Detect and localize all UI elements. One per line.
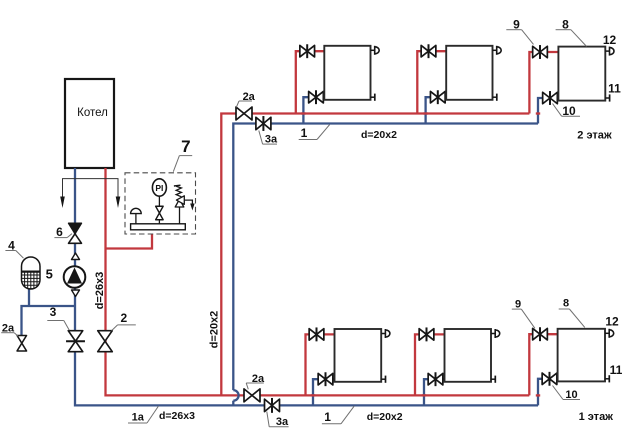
value label d=20x2 (floor 1 main) — [367, 411, 403, 423]
svg-text:8: 8 — [563, 298, 569, 310]
label 2a (floor 2) with leader — [236, 91, 255, 107]
valve 2a (floor 2) — [236, 107, 252, 120]
radiator valve 9 (floor 2, radiator 2) — [421, 44, 436, 58]
label 12 (floor 1) — [605, 314, 619, 328]
wire: blue riser hop over red main — [233, 390, 238, 406]
label 2a (left) with leader — [1, 322, 18, 336]
pump 5 — [64, 266, 86, 288]
value label d=20x2 (riser, rotated) — [209, 311, 221, 349]
caption 1 этаж — [579, 411, 614, 423]
air vent 12 (floor 1, radiator 1) — [381, 329, 390, 338]
svg-text:Котел: Котел — [77, 107, 108, 119]
label 5 — [46, 267, 53, 282]
plug 11 (floor 1, radiator 1) — [381, 376, 385, 383]
plug 11 (floor 2, radiator 2) — [493, 94, 497, 101]
label 7 with leader — [173, 137, 192, 172]
svg-text:11: 11 — [608, 81, 621, 95]
air vent 12 (floor 2, radiator 1) — [371, 46, 380, 55]
radiator valve 10 (floor 2, radiator 2) — [430, 90, 445, 104]
plug 11 (floor 1, radiator 2) — [491, 376, 495, 383]
valve 2a (floor 1) — [244, 389, 260, 402]
wire: blue branch (floor 2, radiator 3) — [536, 98, 559, 124]
wire: red branch (floor 2, radiator 3) — [529, 52, 558, 114]
label 2a (floor 1) with leader — [246, 373, 265, 389]
valve 3a (floor 2) — [256, 116, 271, 131]
label 1 (floor 2) with leader — [299, 125, 330, 141]
air vent (dome) — [131, 208, 142, 224]
gauge valve — [156, 206, 164, 224]
wire: red supply pipe from boiler down and right along floor 1 (main d=26x3) — [106, 168, 530, 395]
union above pump — [72, 253, 80, 260]
label 1 (floor 1) with leader — [322, 406, 354, 424]
svg-text:d=26x3: d=26x3 — [159, 410, 195, 422]
wire: blue branch (floor 1, radiator 1) — [311, 379, 335, 405]
svg-text:d=20x2: d=20x2 — [209, 311, 221, 349]
air vent 12 (floor 2, radiator 3) — [605, 47, 614, 56]
wire: blue return pipe from boiler down through pump/valves and right along floor 1 — [75, 168, 538, 405]
wire: red branch (floor 2, radiator 2) — [417, 51, 446, 113]
radiator valve 9 (floor 1, radiator 3) — [533, 327, 548, 341]
plug 11 (floor 2, radiator 3) — [605, 94, 609, 101]
label 11 (floor 1) — [610, 363, 623, 377]
drain valve 2a (left) — [17, 335, 27, 351]
radiator valve 10 (floor 1, radiator 1) — [318, 372, 333, 386]
wire: red riser to floor 2 (d=20x2) — [221, 114, 529, 396]
wire: red branch (floor 1, radiator 1) — [306, 334, 335, 395]
valve 3a (floor 1) — [265, 398, 280, 413]
radiator valve 10 (floor 1, radiator 2) — [428, 372, 443, 386]
label 2 with leader — [112, 311, 136, 331]
label 1a with leader — [128, 406, 159, 424]
radiator 8 (floor 2, radiator 1) — [324, 46, 370, 100]
svg-text:2 этаж: 2 этаж — [577, 130, 612, 142]
air vent 12 (floor 2, radiator 2) — [493, 46, 502, 55]
svg-text:3: 3 — [50, 305, 57, 319]
safety relief valve with spring and outlet arrow — [174, 185, 195, 224]
plug 11 (floor 1, radiator 3) — [605, 375, 609, 382]
label 3a (floor 1) with leader — [267, 412, 289, 429]
label 10 (floor 2) with leader — [553, 104, 581, 118]
pressure gauge PI — [152, 179, 166, 206]
wire: red branch to safety group box — [107, 234, 153, 249]
radiator valve 9 (floor 2, radiator 3) — [533, 45, 548, 59]
radiator valve 9 (floor 1, radiator 2) — [419, 327, 434, 341]
label 12 (floor 2) — [603, 33, 617, 47]
svg-text:1 этаж: 1 этаж — [579, 411, 614, 423]
label 11 (floor 2) — [608, 81, 621, 95]
radiator 8 (floor 1, radiator 2) — [445, 329, 492, 382]
svg-text:7: 7 — [181, 137, 190, 156]
svg-text:1: 1 — [301, 126, 308, 140]
radiator 8 (floor 2, radiator 3) — [558, 47, 605, 101]
svg-text:5: 5 — [46, 267, 53, 282]
label 9 (floor 2) with leader — [506, 18, 533, 45]
svg-text:d=20x2: d=20x2 — [361, 129, 397, 141]
valve 2 — [98, 331, 113, 352]
label 9 (floor 1) with leader — [512, 299, 535, 329]
boiler "Котел" — [65, 79, 114, 168]
svg-text:d=20x2: d=20x2 — [367, 411, 403, 423]
radiator valve 9 (floor 1, radiator 1) — [309, 327, 324, 341]
label 6 with leader — [54, 225, 72, 239]
check valve 6 — [69, 223, 82, 243]
flow direction arrows under boiler — [60, 179, 120, 208]
wire: blue branch to expansion tank and drain valve — [22, 289, 76, 336]
value label d=26x3 (floor 1 main) — [159, 410, 195, 422]
air vent 12 (floor 1, radiator 3) — [605, 329, 614, 338]
radiator valve 10 (floor 2, radiator 1) — [309, 90, 324, 104]
air vent 12 (floor 1, radiator 2) — [491, 329, 500, 338]
label 8 (floor 2) with leader — [556, 18, 587, 47]
value label d=26x3 (riser, rotated) — [94, 272, 106, 310]
label 10 (floor 1) with leader — [553, 386, 581, 402]
radiator 8 (floor 1, radiator 3) — [558, 329, 605, 382]
value label d=20x2 (floor 2 main) — [361, 129, 397, 141]
safety group enclosure (dashed box) — [125, 173, 196, 234]
radiator valve 10 (floor 1, radiator 3) — [542, 372, 557, 386]
svg-text:d=26x3: d=26x3 — [94, 272, 106, 310]
caption 2 этаж — [577, 130, 612, 142]
svg-text:1a: 1a — [132, 412, 145, 424]
label 3 with leader — [47, 305, 69, 330]
wire: blue branch (floor 1, radiator 2) — [422, 379, 445, 405]
svg-text:2: 2 — [120, 311, 127, 325]
radiator valve 10 (floor 2, radiator 3) — [543, 91, 558, 105]
wire: blue floor-2 return main — [233, 124, 538, 391]
label 4 with leader — [5, 238, 23, 258]
valve 3 (balancing) — [66, 331, 85, 352]
svg-text:PI: PI — [155, 183, 163, 193]
plug 11 (floor 2, radiator 1) — [371, 94, 375, 101]
radiator valve 9 (floor 2, radiator 1) — [300, 44, 315, 58]
wire: blue branch (floor 2, radiator 1) — [301, 97, 324, 123]
union below pump — [72, 290, 80, 297]
svg-text:6: 6 — [56, 225, 63, 239]
svg-text:11: 11 — [610, 363, 623, 377]
svg-text:12: 12 — [603, 33, 617, 47]
wire: red branch (floor 1, radiator 3) — [529, 334, 557, 395]
manifold bar — [131, 224, 186, 230]
label 8 (floor 1) with leader — [559, 298, 585, 328]
expansion tank 4 — [22, 257, 41, 289]
wire: blue branch (floor 2, radiator 2) — [423, 97, 446, 123]
wire: red branch (floor 2, radiator 1) — [296, 51, 325, 113]
label 3a (floor 2) with leader — [259, 131, 278, 146]
radiator 8 (floor 1, radiator 1) — [335, 329, 382, 382]
radiator 8 (floor 2, radiator 2) — [446, 46, 492, 100]
wire: blue branch (floor 1, radiator 3) — [536, 379, 558, 406]
wire: red branch (floor 1, radiator 2) — [415, 334, 445, 395]
svg-text:1: 1 — [324, 410, 331, 424]
svg-text:12: 12 — [605, 314, 619, 328]
